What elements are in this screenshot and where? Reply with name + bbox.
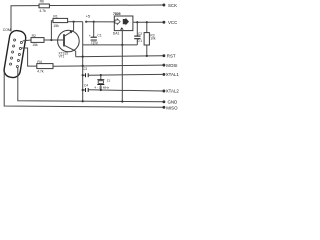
wire R2 pin lead (23, 39, 31, 42)
wire V1 main vertical (82, 22, 84, 102)
svg-text:R6: R6 (40, 0, 44, 4)
svg-text:C2: C2 (138, 32, 142, 36)
svg-text:C1: C1 (97, 34, 101, 38)
wire top SCK rail (11, 5, 163, 32)
wire regulator gnd vertical (121, 31, 123, 102)
terminal SCK (162, 4, 165, 7)
regulator DA1 7805 (113, 12, 133, 35)
wire collector down to RST (75, 51, 77, 57)
svg-text:RST: RST (167, 54, 176, 59)
capacitor C1 270u (89, 22, 102, 45)
svg-text:4.7k: 4.7k (39, 9, 46, 13)
resistor R4 (37, 60, 53, 74)
terminal GND (162, 100, 165, 103)
svg-text:+: + (89, 34, 91, 38)
svg-text:XTAL2: XTAL2 (166, 89, 180, 94)
node +5 dots (85, 21, 87, 23)
wire VCC line (133, 21, 163, 23)
svg-text:SCK: SCK (168, 3, 177, 8)
svg-text:R2: R2 (32, 34, 36, 38)
svg-text:R4: R4 (37, 60, 41, 64)
svg-text:Z1: Z1 (107, 79, 111, 83)
terminal XTAL2 (162, 90, 165, 93)
capacitor C2 0.1 (134, 22, 142, 45)
svg-text:+5: +5 (86, 14, 91, 19)
wire R1 right to emitter node (68, 21, 83, 23)
resistor R3 10k (144, 22, 156, 56)
svg-text:VT1: VT1 (59, 55, 65, 59)
wire R4 pin lead (21, 48, 37, 66)
wire ground rail mid (y44.9) (83, 44, 138, 46)
terminal MOSI (162, 64, 165, 67)
resistor R6 (39, 0, 49, 13)
terminal MISO (162, 106, 165, 109)
capacitor C3 (82, 67, 89, 77)
svg-text:15k: 15k (32, 43, 38, 47)
transistor VT1 KT315 (58, 30, 80, 58)
wire +5 to regulator input (86, 21, 114, 23)
svg-text:0.1: 0.1 (138, 39, 143, 43)
wire R2 to base, node dot (44, 39, 64, 41)
crystal ZQ1 (94, 75, 110, 90)
resistor R2 (31, 34, 44, 47)
wire MISO shell lead (4, 72, 162, 107)
terminal RST (162, 54, 165, 57)
svg-text:10k: 10k (150, 37, 156, 41)
svg-text:GND: GND (168, 100, 178, 105)
terminal XTAL1 (162, 73, 165, 76)
wire XTAL1 line (88, 73, 162, 76)
wire RST line (76, 56, 163, 57)
svg-text:COM: COM (3, 28, 11, 32)
svg-text:7805: 7805 (113, 12, 121, 16)
connector CON COM (3, 30, 27, 79)
svg-text:DA1: DA1 (113, 31, 120, 35)
svg-text:270µ: 270µ (91, 41, 98, 45)
terminal VCC (162, 21, 165, 24)
wire XTAL2 line (88, 90, 162, 91)
svg-text:VCC: VCC (168, 20, 177, 25)
svg-text:4.7k: 4.7k (37, 70, 44, 74)
svg-text:MOSI: MOSI (166, 63, 177, 68)
svg-text:MISO: MISO (166, 105, 178, 110)
resistor R1 (53, 14, 68, 27)
svg-text:C4: C4 (84, 84, 88, 88)
svg-text:C3: C3 (83, 67, 87, 71)
svg-text:4 - 10 MHz: 4 - 10 MHz (94, 86, 109, 90)
svg-text:R1: R1 (53, 14, 57, 18)
wire R1 left leg (51, 21, 53, 40)
capacitor C4 (82, 84, 89, 92)
svg-text:XTAL1: XTAL1 (166, 72, 180, 77)
svg-text:15k: 15k (53, 24, 59, 28)
wire MOSI line (53, 65, 163, 66)
wire emitter vertical (73, 22, 75, 31)
wire GND pin lead (18, 67, 163, 102)
